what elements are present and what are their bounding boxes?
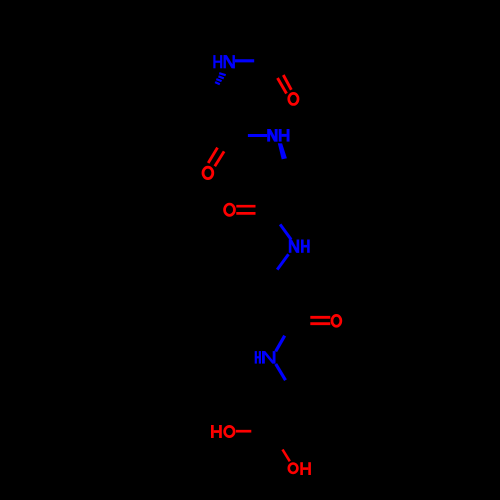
atom label N2: H of NH [279, 129, 290, 142]
wire: bond carbonyl C to N4 (blue half) [276, 336, 285, 352]
double bond C=O1 acetyl (red halves) [278, 75, 292, 94]
wire: bond carbonyl C to N2 (blue half) [248, 134, 267, 137]
atom label O5: O of HO [225, 426, 235, 436]
double bond C=O3 second amide carbonyl (red halves) [236, 206, 255, 213]
atom label N4: N of HN [262, 351, 276, 364]
atom label O6: O of OH [289, 464, 298, 473]
wire: bond diol carbon to O6 (red half) [283, 450, 290, 462]
atom label O2 (first amide oxygen) [203, 167, 213, 178]
atom label O6: H of OH [300, 462, 311, 475]
double bond C=O2 first amide carbonyl (red halves) [208, 148, 224, 167]
atom label O1 (acetyl carbonyl oxygen) [289, 93, 298, 104]
solid wedge bond N2 to stereocenter C3 (blue half) [278, 143, 287, 159]
atom label N1: N of HN [224, 55, 235, 68]
atom label O5: H of HO (hydroxyl) [211, 425, 222, 438]
atom label N3: H of NH [301, 240, 310, 253]
atom label N3: N of NH [289, 240, 299, 253]
hashed wedge bond N1 to stereocenter C2 (4 blue dashes) [215, 73, 226, 84]
double bond C=O4 third amide carbonyl (red halves) [310, 317, 330, 323]
wire: bond N4 to CH2 (blue half) [276, 364, 286, 380]
atom label N1: H of HN (acetamide nitrogen) [213, 55, 222, 68]
wire: bond O5 to diol carbon (red half) [236, 430, 251, 433]
atom label N4: H of HN [255, 351, 261, 364]
wire: bond N3 to glycine CH2 (blue half) [277, 254, 288, 269]
atom label O4 (third amide oxygen) [332, 315, 341, 326]
wire: bond N1 to acetyl carbonyl C (blue half) [235, 59, 254, 62]
atom label O3 (second amide oxygen) [225, 204, 235, 215]
atom label N2: N of NH [267, 129, 277, 142]
wire: bond carbonyl C to N3 (blue half) [280, 224, 291, 239]
